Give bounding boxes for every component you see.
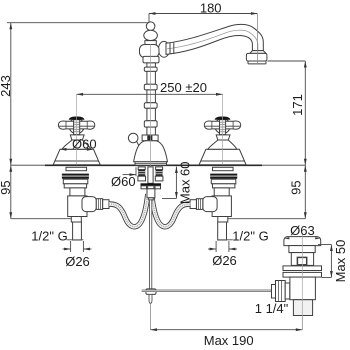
- spout column: finial bead: [146, 22, 155, 31]
- spout tube inner line: [167, 30, 258, 50]
- left valve shank: [70, 188, 85, 196]
- arrowheads Max 60: [175, 167, 178, 174]
- stud cap right: [156, 167, 163, 170]
- handle black cap: [69, 117, 85, 120]
- svg-text:95: 95: [0, 180, 13, 194]
- arrowheads Ø26 left: [64, 248, 71, 251]
- cross arms: [204, 121, 240, 129]
- pop-up lift rod: [149, 200, 151, 289]
- handle hub: [69, 118, 84, 133]
- dim Max 190 right extension: [301, 317, 303, 330]
- left valve plate 3: [64, 184, 86, 188]
- right valve outlet boss: [203, 197, 217, 212]
- arrowheads 95 left: [9, 165, 12, 172]
- waste set screw knob: [297, 257, 306, 264]
- dim Max 60 line: [175, 167, 177, 199]
- svg-text:Ø60: Ø60: [111, 174, 136, 189]
- leader 1/2 G left: [67, 239, 84, 241]
- column block dark square: [147, 136, 152, 141]
- waste lower body: [290, 277, 316, 300]
- finial ball: [144, 30, 158, 40]
- dim 171 / 95 right vertical line: [304, 61, 306, 219]
- pop-up knob ball: [128, 133, 138, 143]
- arrowheads 250: [77, 93, 84, 96]
- waste flange band 2: [283, 272, 322, 277]
- left supply hose: [109, 194, 148, 227]
- left handle group: [53, 117, 100, 165]
- svg-text:243: 243: [0, 75, 13, 97]
- column plinth: [135, 162, 167, 165]
- bonnet bell: [208, 140, 237, 149]
- right valve hex nut: [196, 199, 202, 210]
- stud right dark threaded block: [156, 170, 163, 177]
- dim 243 top extension line: [7, 22, 149, 24]
- dim 180 line: [149, 13, 257, 15]
- waste top cap Ø63: [284, 237, 321, 246]
- cross arms: [58, 121, 94, 129]
- dim 180 left tick: [148, 14, 150, 23]
- svg-text:1 1/4": 1 1/4": [255, 301, 289, 316]
- dim 243 / 95 left vertical line: [10, 23, 12, 219]
- left valve step: [71, 217, 81, 223]
- waste body: [291, 253, 313, 266]
- waste flange band 1: [283, 266, 322, 271]
- finial collar: [145, 41, 156, 46]
- center dark horseshoe nut: [141, 183, 162, 186]
- center nut shoulders: [141, 186, 147, 189]
- spout joint ball: [158, 41, 169, 57]
- column ring collar: [143, 56, 159, 63]
- arrowheads 95 right: [304, 165, 307, 172]
- dim Ø26 left extensions: [70, 241, 72, 252]
- left valve outlet boss: [82, 197, 96, 212]
- right supply hose: [152, 194, 191, 227]
- left valve body: [68, 196, 87, 217]
- right handle group: [199, 117, 246, 165]
- bonnet skirt: [216, 135, 230, 140]
- column neck 1: [147, 63, 156, 67]
- right valve locknut plate: [213, 167, 234, 170]
- svg-text:Ø63: Ø63: [290, 223, 315, 238]
- arrowhead Ø60 center: [130, 173, 137, 176]
- column block: [142, 135, 158, 141]
- arrowheads 180: [149, 12, 156, 15]
- arrowheads 243: [9, 23, 12, 30]
- left valve dark washer band: [62, 174, 89, 179]
- escutcheon base plate: [53, 149, 100, 165]
- dim Ø26 right extensions: [215, 241, 217, 252]
- svg-text:Max 50: Max 50: [333, 240, 348, 283]
- right valve step: [218, 217, 228, 223]
- stud left dark threaded block: [138, 170, 145, 177]
- column centerline: [150, 44, 152, 199]
- waste rod hex nut: [276, 281, 286, 302]
- handle screw detail: [74, 120, 80, 135]
- waste rod hex cap: [272, 285, 276, 299]
- svg-text:Max 60: Max 60: [178, 161, 193, 204]
- right hose collar: [190, 200, 196, 209]
- center shank: [148, 167, 153, 183]
- stud base right: [155, 176, 163, 181]
- svg-text:250 ±20: 250 ±20: [160, 80, 207, 95]
- spout tube: [166, 24, 263, 54]
- column neck 2: [147, 71, 156, 84]
- arrowheads Max 50: [330, 245, 333, 252]
- pop-up clevis: [146, 289, 156, 295]
- pop-up horizontal rod: [142, 290, 276, 292]
- column neck 3: [147, 90, 156, 103]
- dim 180 right extension through nozzle: [256, 14, 258, 64]
- waste tailpiece 1 1/4: [293, 300, 312, 316]
- dim Max 50 line: [330, 245, 332, 278]
- right valve shank: [214, 188, 229, 196]
- handle screw detail: [220, 120, 226, 135]
- left valve hex nut: [96, 199, 102, 210]
- spout root sleeve: [169, 43, 171, 54]
- pop-up knob stem: [137, 141, 140, 147]
- right valve tailpipe 1/2 G: [218, 222, 227, 240]
- dim Max 190 line: [150, 329, 302, 331]
- arrowheads Ø63: [284, 237, 290, 239]
- column head: [140, 45, 160, 58]
- svg-text:Ø26: Ø26: [65, 254, 90, 269]
- svg-text:95: 95: [289, 180, 304, 194]
- center connector block: [147, 189, 155, 198]
- arrowheads 171: [304, 61, 307, 68]
- nozzle rim: [248, 61, 266, 64]
- dim 95 right bottom extension: [228, 218, 305, 220]
- dim 95 left bottom extension: [11, 218, 71, 220]
- svg-text:171: 171: [290, 94, 305, 116]
- svg-text:Ø26: Ø26: [212, 253, 237, 268]
- nozzle bell: [246, 53, 267, 61]
- arrowheads Ø60 left: [60, 148, 67, 151]
- column dome bell: [134, 141, 168, 162]
- svg-text:Max 190: Max 190: [204, 333, 254, 348]
- svg-text:180: 180: [200, 1, 222, 16]
- right valve body: [212, 196, 231, 217]
- svg-text:1/2" G: 1/2" G: [31, 229, 67, 244]
- arrowheads Max 190: [150, 328, 157, 331]
- column ring 1: [144, 67, 157, 71]
- waste neck: [289, 246, 315, 253]
- left hose collar: [103, 200, 109, 209]
- escutcheon base plate: [199, 149, 246, 165]
- column ring 4: [144, 121, 157, 127]
- dim 171 top extension from nozzle: [268, 60, 306, 62]
- dim 250 line: [77, 93, 223, 95]
- center connector step: [149, 198, 154, 200]
- waste rod collar: [285, 283, 290, 299]
- right valve plate 3: [213, 184, 235, 188]
- arrowheads Ø26 right: [210, 248, 217, 251]
- waste centerline: [301, 234, 303, 317]
- dim Ø60 center leader: [123, 174, 137, 176]
- dim Max 60 bottom extension: [162, 198, 176, 200]
- left handle centerline: [76, 94, 78, 165]
- column neck 4: [147, 108, 156, 120]
- dim Ø26 left line: [63, 248, 71, 250]
- right handle centerline: [222, 94, 224, 165]
- right valve dark washer band: [210, 174, 237, 179]
- bonnet skirt: [70, 135, 84, 140]
- leader 1/2 G right: [218, 239, 233, 241]
- stud base left: [138, 176, 146, 181]
- nozzle collar: [250, 51, 266, 54]
- bonnet bell: [62, 140, 91, 149]
- right valve plate 2: [211, 179, 236, 184]
- left valve tailpipe 1/2 G: [73, 222, 82, 240]
- column neck 5: [147, 127, 156, 135]
- handle hub: [215, 118, 230, 133]
- svg-text:Ø60: Ø60: [72, 136, 97, 151]
- column ring 3: [144, 103, 157, 109]
- left valve plate 2: [63, 179, 88, 184]
- dim Max 50 extensions: [318, 244, 331, 246]
- column ring 2: [144, 84, 157, 90]
- handle black cap: [215, 117, 231, 120]
- dim Ø26 right line: [208, 248, 216, 250]
- dim Max 190 left extension: [149, 304, 151, 330]
- deck / mounting surface: [11, 164, 306, 166]
- svg-text:1/2" G: 1/2" G: [232, 229, 268, 244]
- pop-up pin: [149, 294, 152, 303]
- left valve locknut plate: [66, 167, 87, 170]
- stud cap left: [138, 167, 145, 170]
